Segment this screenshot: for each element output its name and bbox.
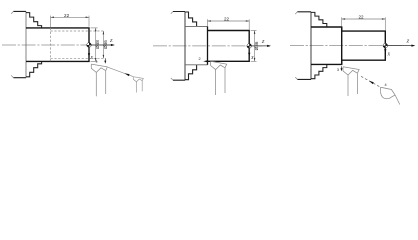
svg-text:22: 22 bbox=[64, 13, 70, 18]
cutoff tool 4 panel3 bbox=[381, 87, 400, 104]
dimension 22 panel1 bbox=[51, 16, 90, 28]
Z axis panel3 bbox=[385, 45, 414, 47]
workpiece origin symbol panel2 bbox=[247, 44, 252, 49]
chuck top jaw steps panel3 bbox=[311, 12, 327, 27]
chuck body panel1 bbox=[14, 11, 27, 77]
workpiece stepped profile panel2 bbox=[185, 26, 208, 64]
tool approach line panel1 bbox=[108, 67, 133, 76]
chuck bottom jaw steps panel2 bbox=[185, 65, 197, 80]
dashed finished contour panel1 bbox=[51, 28, 106, 62]
workpiece origin symbol panel1 bbox=[87, 43, 92, 48]
svg-text:Z: Z bbox=[407, 38, 410, 43]
diameter dim extension lines panel1 bbox=[91, 28, 98, 62]
chuck top jaw steps panel1 bbox=[26, 13, 42, 28]
turning tool panel2 bbox=[211, 61, 227, 95]
turning tool 3 panel3 bbox=[343, 67, 359, 96]
workpiece origin symbol panel3 bbox=[383, 43, 388, 48]
svg-text:Ø38: Ø38 bbox=[95, 40, 100, 49]
svg-text:Ø36: Ø36 bbox=[103, 40, 108, 49]
svg-text:X: X bbox=[89, 55, 93, 60]
chuck body panel3 bbox=[297, 12, 311, 80]
diameter dim extension lines panel2 bbox=[251, 31, 257, 62]
svg-text:4: 4 bbox=[385, 83, 387, 87]
chuck top jaw steps panel2 bbox=[185, 12, 197, 26]
infeed down arrow panel1 bbox=[104, 58, 106, 62]
X axis panel3 bbox=[384, 46, 386, 52]
centerline panel1 bbox=[2, 44, 111, 46]
Z axis panel1 bbox=[89, 44, 114, 46]
workpiece panel1 bbox=[26, 28, 89, 62]
ghost tool at change position panel1 bbox=[133, 77, 143, 93]
chuck face line panel3 bbox=[310, 12, 312, 80]
dimension 22 panel3 bbox=[342, 17, 386, 30]
svg-text:3: 3 bbox=[337, 68, 339, 72]
svg-text:Z: Z bbox=[262, 39, 265, 44]
svg-text:22: 22 bbox=[358, 14, 364, 19]
feed direction arrow panel2 bbox=[203, 60, 207, 62]
svg-text:Z: Z bbox=[110, 38, 113, 43]
svg-text:X: X bbox=[386, 52, 390, 57]
chuck bottom jaw steps panel1 bbox=[26, 61, 42, 76]
centerline panel3 bbox=[290, 45, 404, 47]
chuck body panel2 bbox=[173, 12, 185, 81]
infeed down arrow panel3 bbox=[341, 66, 343, 70]
svg-text:1: 1 bbox=[96, 59, 98, 63]
svg-text:2: 2 bbox=[199, 57, 201, 61]
Z axis panel2 bbox=[249, 45, 270, 47]
workpiece stepped profile panel3 bbox=[311, 27, 385, 64]
svg-text:22: 22 bbox=[224, 16, 230, 21]
centerline panel2 bbox=[153, 45, 262, 47]
dimension dia38 panel1 bbox=[95, 28, 97, 62]
dimension dia36 panel2 bbox=[254, 31, 256, 62]
chuck face line panel1 bbox=[25, 11, 27, 77]
chuck face line panel2 bbox=[184, 12, 186, 81]
svg-text:X: X bbox=[250, 55, 254, 60]
dimension 22 panel2 bbox=[208, 19, 250, 29]
X axis panel2 bbox=[248, 46, 250, 56]
chuck bottom jaw steps panel3 bbox=[311, 64, 327, 79]
turning tool 1 panel1 bbox=[91, 64, 107, 96]
dimension dia36 panel1 bbox=[102, 31, 104, 58]
X axis panel1 bbox=[88, 45, 90, 56]
dashed tool change path panel3 bbox=[361, 76, 381, 87]
